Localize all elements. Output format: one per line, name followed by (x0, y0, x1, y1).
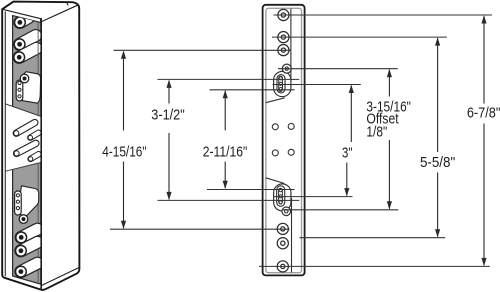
screw hole H7 (277, 238, 288, 249)
arrow 4-15/16 down (121, 221, 126, 229)
bottom face inner edge (41, 267, 79, 285)
roller R6 (16, 242, 38, 256)
svg-text:1/8": 1/8" (366, 124, 387, 140)
upper bend line (290, 9, 292, 84)
arrow 4-15/16 up (121, 51, 126, 59)
lower keeper slab (18, 186, 39, 218)
leader 3-15/16 top (278, 68, 398, 70)
arrow 2-11/16 down (223, 181, 228, 189)
lower offset diagonal (266, 178, 284, 184)
leader 6-7/8 top (274, 14, 492, 16)
screw hole H4 (282, 64, 291, 73)
plate inner outline (266, 8, 302, 272)
leader 3in bottom (274, 196, 353, 198)
arrow 3-1/2 down (166, 192, 171, 200)
arrow 3-15/16 up (387, 69, 392, 77)
lower slot outer pill (276, 190, 285, 203)
lower boss (273, 193, 292, 203)
stem 5-5/8 (437, 38, 439, 152)
roller R1 (15, 17, 29, 28)
front-top edge (2, 9, 41, 19)
roller R7 (16, 263, 38, 277)
arrow 2-11/16 up (223, 90, 228, 98)
rod D (28, 154, 38, 161)
rod B (28, 133, 39, 140)
arrow 6-7/8 up (481, 15, 486, 23)
upper rivet (20, 74, 29, 83)
screw hole H5 (282, 207, 291, 216)
stem 4-15/16 (123, 52, 125, 131)
upper slot circles (279, 77, 282, 80)
front face right edge (40, 19, 42, 289)
svg-text:5-5/8": 5-5/8" (420, 155, 455, 171)
leader 6-7/8 bottom (259, 265, 490, 267)
screw hole H6 (277, 223, 288, 234)
screw hole H3 (278, 45, 289, 56)
leader 5-5/8 bottom (300, 237, 446, 239)
leader 5-5/8 top (272, 36, 447, 38)
screw hole H2 (278, 31, 289, 42)
arrow 6-7/8 down (481, 258, 486, 266)
channel side-wall line (37, 15, 39, 285)
top face notch (67, 2, 69, 5)
stem 3-1/2 (168, 81, 170, 104)
svg-text:3-1/2": 3-1/2" (151, 108, 184, 124)
arrow 5-5/8 up (435, 37, 440, 45)
svg-text:2-11/16": 2-11/16" (203, 145, 248, 161)
adjustment hole c2 (288, 123, 294, 129)
arrow 3-15/16 down (387, 201, 392, 209)
leader 2-11/16 bottom (207, 189, 295, 191)
leader 3in top (273, 84, 361, 86)
web-top edge (41, 5, 78, 22)
upper slot inner pill (278, 78, 283, 89)
upper keeper pill (18, 81, 21, 98)
upper boss (273, 80, 292, 88)
leader 3-1/2 bottom (158, 199, 300, 201)
lower slot circles (279, 189, 282, 192)
arrow 3-1/2 up (166, 80, 171, 88)
arrow 3in up (349, 85, 354, 93)
lower bend line (291, 198, 293, 273)
front opening (gray channel) (13, 16, 41, 285)
lower slot inner pill (278, 190, 283, 202)
stem 3-15/16 (388, 70, 390, 97)
lower keeper pill (16, 194, 19, 212)
rod A (14, 123, 35, 136)
roller R5 (16, 229, 38, 243)
part silhouette (2, 2, 79, 290)
svg-text:3": 3" (342, 145, 353, 161)
leader 3-1/2 top (158, 78, 300, 80)
screw hole H1 (278, 9, 289, 20)
leader 4-15/16 bottom (110, 228, 290, 230)
upper offset diagonal (266, 98, 285, 103)
rod C (14, 143, 36, 156)
adjustment hole c3 (272, 150, 278, 156)
svg-text:6-7/8": 6-7/8" (467, 106, 500, 122)
arrow 5-5/8 down (435, 229, 440, 237)
arrow 3in down (344, 188, 349, 196)
upper keeper slab (22, 72, 41, 104)
leader 4-15/16 top (114, 49, 291, 51)
roller R2 (14, 36, 36, 50)
stem 6-7/8 (483, 16, 485, 104)
stem 2-11/16 (224, 91, 226, 131)
leader 2-11/16 top (210, 89, 295, 91)
lower rivet (19, 215, 28, 224)
front face inner-left border line (4, 12, 6, 276)
roller R3 (14, 48, 37, 62)
screw hole H8 (277, 261, 288, 272)
adjustment hole c4 (288, 149, 294, 155)
svg-text:4-15/16": 4-15/16" (102, 145, 146, 161)
stem 3in (350, 86, 352, 143)
middle see-through window (5, 104, 41, 171)
leader 3-15/16 bottom (283, 209, 399, 211)
upper slot outer pill (276, 79, 285, 89)
plate outer outline (263, 5, 305, 276)
adjustment hole c1 (272, 124, 278, 130)
